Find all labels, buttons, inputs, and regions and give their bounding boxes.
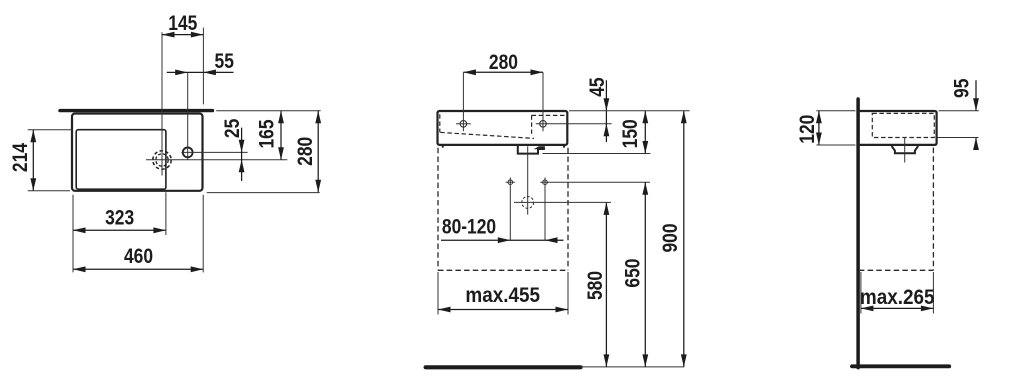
drain inner dashed circle	[156, 154, 168, 166]
dimension 80-120 right arrowhead	[545, 237, 558, 243]
extension line 323 right	[165, 192, 167, 235]
mounting hole left horizontal tick	[506, 181, 515, 183]
tap hole	[183, 148, 193, 158]
dimension 280 line (top view)	[317, 111, 319, 193]
tap hole centerline horizontal	[181, 151, 247, 153]
dimension 650 line	[644, 182, 646, 367]
dimension 280 line (front)	[463, 71, 543, 73]
svg-text:max.455: max.455	[465, 284, 540, 307]
drain stub front	[518, 145, 545, 153]
svg-text:25: 25	[222, 118, 245, 138]
extension line max455 left	[437, 272, 439, 315]
hidden deck edge horizontal dashed	[532, 114, 566, 116]
dimension 120 line	[818, 111, 820, 145]
extension line 95 bottom	[936, 137, 979, 139]
dimension 25 line	[241, 128, 243, 181]
wall line vertical	[856, 99, 860, 368]
dimension 580 line	[605, 202, 607, 367]
floor line right view	[852, 364, 949, 368]
drain outer dashed circle	[153, 151, 171, 169]
extension line max265 left	[860, 272, 862, 314]
mounting hole right vertical line	[544, 178, 546, 241]
basin front outline	[438, 111, 568, 145]
dimension 323 line	[73, 229, 166, 231]
svg-text:214: 214	[9, 143, 32, 172]
drain centerline horizontal	[146, 159, 287, 161]
dimension 460 line	[73, 268, 203, 270]
svg-text:580: 580	[584, 271, 607, 300]
dimension 80-120 left arrowhead	[498, 237, 511, 243]
extension line basin top right	[569, 110, 690, 112]
svg-text:280: 280	[295, 137, 318, 166]
tap crosshair left circle	[460, 121, 467, 128]
dimension 214 line	[32, 130, 34, 191]
pedestal dashed bottom side view	[859, 269, 934, 271]
svg-text:280: 280	[489, 51, 518, 74]
mounting hole right circle	[543, 180, 548, 185]
extension line 95 top	[939, 110, 979, 112]
hidden edge left dashed	[439, 114, 441, 132]
washbasin outer rim	[72, 114, 203, 191]
extension line max265 right	[932, 272, 934, 314]
tap crosshair left vertical / 280 extension	[462, 72, 464, 131]
floor line thin	[581, 366, 685, 368]
extension line 460 right	[202, 195, 204, 273]
dimension 55 line	[167, 71, 234, 73]
dimension 55 left arrowhead	[175, 70, 188, 76]
dimension 95 upper arrow	[975, 80, 977, 111]
dimension 25 upper arrowhead	[239, 140, 245, 153]
tap crosshair left horizontal	[456, 123, 471, 125]
drain stub side	[892, 146, 919, 153]
svg-text:323: 323	[105, 207, 134, 230]
svg-text:650: 650	[622, 259, 645, 288]
dimension 55 right arrowhead	[203, 70, 216, 76]
svg-text:900: 900	[659, 223, 682, 252]
pedestal dashed bottom	[438, 269, 568, 271]
extension line 120 bottom	[816, 144, 855, 146]
pedestal dashed left	[437, 148, 439, 270]
dimension 900 line	[683, 111, 685, 367]
pedestal dashed right	[567, 148, 569, 270]
tap hole centerline vertical	[187, 72, 189, 159]
svg-text:145: 145	[168, 13, 197, 36]
dimension 45 upper arrowhead	[604, 98, 610, 111]
extension line top right	[216, 110, 320, 112]
hidden deck edge vertical dashed	[531, 115, 533, 134]
dimension max455 line	[438, 309, 568, 311]
dimension 150 line	[644, 111, 646, 154]
basin side outline	[858, 111, 937, 145]
drain centerline front	[527, 146, 529, 214]
extension line bottom right	[207, 192, 320, 194]
basin interior hidden dashed	[872, 113, 934, 137]
extension line left bottom	[72, 195, 74, 273]
drain centerline vertical	[161, 32, 163, 175]
dimension 145 line	[162, 34, 203, 36]
pedestal dashed right side view	[932, 148, 934, 271]
extension line 150 bottom	[543, 153, 651, 155]
dimension max265 line	[861, 307, 934, 309]
basin inner rim	[76, 130, 166, 190]
svg-text:55: 55	[215, 50, 235, 73]
svg-text:150: 150	[619, 119, 642, 148]
floor line thick	[426, 365, 581, 369]
extension line 120 top	[816, 110, 855, 112]
mounting hole left circle	[508, 180, 513, 185]
extension line right of 145	[202, 28, 204, 105]
extension line max455 right	[567, 272, 569, 315]
dimension 95 lower arrow	[975, 138, 977, 148]
mounting hole right horizontal + 650 extension	[540, 181, 650, 183]
svg-text:165: 165	[256, 119, 279, 148]
hidden basin bottom slope dashed	[440, 132, 534, 138]
svg-text:80-120: 80-120	[442, 216, 496, 239]
tap crosshair right circle	[540, 121, 547, 128]
svg-text:95: 95	[951, 78, 974, 98]
mounting hole left vertical line	[509, 178, 511, 241]
mounting tab right	[563, 145, 565, 148]
wall line	[60, 109, 213, 112]
extension line 214 top	[28, 129, 73, 131]
dimension 80-120 line	[441, 239, 564, 241]
svg-text:max.265: max.265	[860, 286, 935, 309]
extension line 214 bottom	[28, 190, 70, 192]
dimension 165 line	[280, 111, 282, 160]
siphon crosshair dashed circle	[522, 197, 534, 209]
dimension 25 lower arrowhead	[239, 160, 245, 173]
drain stub wedge	[534, 146, 545, 149]
mounting tab left	[442, 145, 444, 148]
svg-text:45: 45	[586, 77, 609, 97]
tap crosshair right vertical / 280 extension	[542, 72, 544, 131]
tap crosshair right horizontal + 45 extension	[536, 123, 612, 125]
svg-text:120: 120	[796, 115, 819, 144]
svg-text:460: 460	[124, 246, 153, 269]
dimension 45 lower arrowhead	[604, 124, 610, 137]
dimension 45 line	[605, 80, 607, 142]
drain centerline side	[904, 138, 906, 163]
siphon horizontal + 580 extension	[514, 201, 611, 203]
